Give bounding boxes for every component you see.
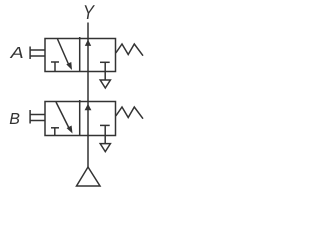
svg-text:A: A — [9, 45, 23, 62]
svg-text:B: B — [9, 111, 20, 128]
svg-text:Y: Y — [83, 2, 95, 24]
